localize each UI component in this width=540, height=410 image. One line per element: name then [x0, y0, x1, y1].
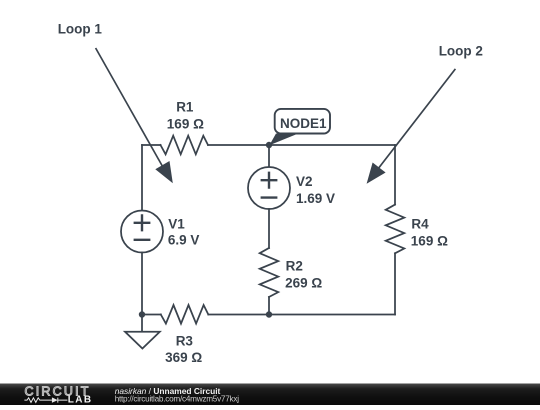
Loop 1 annotation arrow [96, 48, 173, 183]
svg-text:169 Ω: 169 Ω [411, 234, 448, 249]
ground [125, 315, 160, 349]
svg-text:169 Ω: 169 Ω [167, 116, 204, 131]
resistor R3 [161, 305, 209, 324]
wire top right segment [208, 144, 395, 146]
voltage source V2 [248, 167, 290, 209]
wire left vertical upper [141, 145, 143, 211]
footer bar [0, 384, 540, 406]
wire bottom left lead [142, 314, 161, 316]
wire bottom right segment [208, 314, 395, 316]
wire right vertical lower [394, 253, 396, 314]
svg-text:V1: V1 [168, 216, 185, 231]
svg-text:R2: R2 [286, 259, 303, 274]
label R1 [176, 100, 194, 115]
resistor R2 [260, 248, 279, 297]
label R4 [411, 217, 429, 232]
svg-text:LAB: LAB [68, 395, 93, 405]
node junction dot bottom middle [266, 311, 272, 317]
svg-text:6.9 V: 6.9 V [168, 233, 200, 248]
footer url text [115, 395, 240, 404]
value 1.69 V [296, 191, 335, 206]
svg-text:NODE1: NODE1 [280, 116, 327, 131]
resistor R1 [161, 136, 209, 155]
svg-text:Loop 1: Loop 1 [58, 22, 103, 37]
label R2 [286, 259, 303, 274]
svg-text:V2: V2 [296, 174, 313, 189]
wire middle between V2 and R2 [268, 209, 270, 248]
wire top left lead [142, 144, 161, 146]
wire left vertical lower [141, 253, 143, 315]
value 169 ohm R4 [411, 234, 448, 249]
voltage source V1 [121, 211, 163, 253]
wire middle bottom lead [268, 297, 270, 315]
node junction dot NODE1 [266, 142, 272, 148]
label V1 [168, 216, 185, 231]
svg-text:R4: R4 [411, 217, 429, 232]
value 369 ohm R3 [165, 350, 202, 365]
node junction dot bottom left [139, 311, 145, 317]
label Loop 1 [58, 22, 103, 37]
wire right vertical upper [394, 145, 396, 205]
resistor R4 [386, 205, 405, 254]
wire middle top lead [268, 145, 270, 167]
value 269 ohm R2 [285, 276, 322, 291]
svg-text:369 Ω: 369 Ω [165, 350, 202, 365]
svg-text:1.69 V: 1.69 V [296, 191, 335, 206]
label R3 [176, 333, 194, 348]
svg-text:R3: R3 [176, 333, 194, 348]
svg-text:Loop 2: Loop 2 [439, 43, 483, 58]
CircuitLab logo [24, 385, 92, 406]
value 169 ohm R1 [167, 116, 204, 131]
svg-text:R1: R1 [176, 100, 194, 115]
label V2 [296, 174, 313, 189]
svg-text:269 Ω: 269 Ω [285, 276, 322, 291]
footer title text [115, 386, 221, 396]
value 6.9 V [168, 233, 200, 248]
svg-text:http://circuitlab.com/c4mwzm5v: http://circuitlab.com/c4mwzm5v77kxj [115, 395, 240, 404]
Loop 2 annotation arrow [367, 69, 456, 184]
label Loop 2 [439, 43, 483, 58]
NODE1 callout [269, 109, 330, 145]
